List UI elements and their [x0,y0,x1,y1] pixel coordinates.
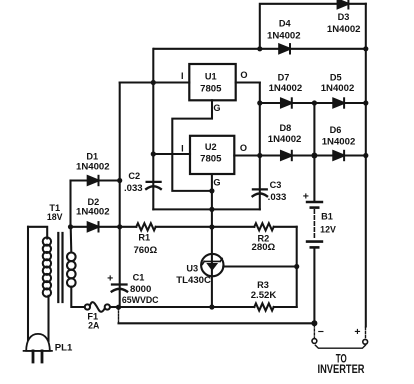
wire U2 ground rail down through U3 [211,174,213,307]
transformer T1 core [58,233,62,302]
svg-text:C2: C2 [128,171,140,181]
wire R2 right vertical [296,227,298,307]
resistor R3 [254,303,273,310]
svg-text:U3: U3 [186,264,198,274]
svg-text:12V: 12V [320,225,336,235]
svg-text:I: I [181,71,184,81]
wire rail A to rail B jog (dotted) [118,308,120,323]
svg-text:8000: 8000 [130,284,151,295]
op-amp U1 regulator box [189,64,235,100]
svg-text:C1: C1 [133,273,145,283]
node dot D5/right-rail [363,100,368,105]
svg-text:+: + [107,273,113,285]
svg-text:760Ω: 760Ω [133,245,157,256]
wire left rail (with C1 gap) [119,83,121,308]
wire fuse to rail junction [110,306,119,308]
svg-text:280Ω: 280Ω [252,242,276,253]
node dot secondary/D2 [68,224,73,229]
svg-text:D4: D4 [279,18,292,28]
wire U1 input [120,81,190,83]
svg-text:65WVDC: 65WVDC [122,295,159,305]
node dot U2 input feed [151,151,156,156]
wire input feed vertical (with C2 gap) [152,49,154,210]
svg-text:1N4002: 1N4002 [268,134,302,145]
svg-text:C3: C3 [270,180,282,190]
node dot ground jog [209,188,214,193]
svg-text:1N4002: 1N4002 [321,83,355,94]
svg-text:1N4002: 1N4002 [267,31,301,42]
svg-text:D6: D6 [330,125,342,135]
wire bottom rail A (with R3 gap) [119,306,297,308]
diode D7 [281,98,292,107]
diode D5 [333,98,344,107]
svg-text:.033: .033 [268,192,287,203]
svg-text:18V: 18V [47,212,63,222]
wire D2 / R1 / R2 line [71,226,297,228]
node dot ground line [209,207,214,212]
svg-text:TL430C: TL430C [176,275,211,286]
wire secondary bottom lead and fuse wire [71,287,85,307]
wire capacitor ground line [153,208,259,210]
wire secondary top lead [70,227,73,253]
wire plug hot lead to primary [28,227,47,239]
capacitor C3 [253,189,267,196]
wire rail B to minus terminal [119,322,315,324]
svg-text:INVERTER: INVERTER [318,362,365,376]
wire plug left vertical [27,227,29,341]
terminal minus [312,339,317,344]
svg-text:O: O [240,70,247,80]
svg-text:U2: U2 [205,142,217,152]
svg-text:PL1: PL1 [55,342,73,353]
svg-text:1N4002: 1N4002 [327,24,361,35]
fuse F1 [85,302,110,312]
svg-text:D8: D8 [280,123,292,133]
svg-text:1N4002: 1N4002 [76,207,110,218]
svg-text:G: G [213,103,220,113]
diode D8 [281,151,292,160]
resistor R2 [254,223,273,230]
capacitor C1 [112,285,127,292]
node dot D4/top-loop [257,46,262,51]
svg-text:U1: U1 [205,71,217,81]
wire U3 reference [223,265,296,267]
transformer T1 secondary winding [67,252,76,286]
svg-text:−: − [318,326,324,338]
bracket to inverter [315,345,365,348]
svg-text:+: + [354,326,360,338]
wire U1 output [236,81,260,83]
svg-text:D5: D5 [330,72,342,82]
svg-text:+: + [303,191,309,203]
node dot battery/rail B [311,320,317,326]
node dot D8/D6 mid [311,153,317,159]
svg-text:1N4002: 1N4002 [76,161,110,172]
node dot D6/right-rail [363,153,368,158]
wire battery dotted lead to - terminal [313,325,315,338]
svg-text:I: I [181,144,184,154]
node dot U3 anode rail A [209,304,214,309]
svg-text:B1: B1 [321,212,333,222]
wire right rail [365,4,367,327]
node dot U1 input feed [151,80,156,85]
wire right rail dotted lead to + terminal [365,328,367,339]
node dot D4/right-rail [363,46,368,51]
node dot D7 branch [257,100,262,105]
diode D6 [333,151,344,160]
svg-text:D7: D7 [278,72,290,82]
svg-text:D3: D3 [338,12,350,22]
plug PL1 [24,334,52,362]
svg-text:1N4002: 1N4002 [322,137,356,148]
wire U2 input [153,153,190,155]
node dot D2/left-rail [117,224,122,229]
diode D3 [338,0,349,8]
svg-text:D1: D1 [86,152,98,162]
wire battery vertical lower [313,249,315,323]
svg-text:2A: 2A [88,320,100,330]
wire primary bottom lead [47,296,49,341]
resistor R1 [136,223,155,230]
svg-text:7805: 7805 [200,83,222,94]
svg-text:G: G [213,178,220,188]
wire U1 ground jog [172,100,212,191]
battery B1 [307,202,322,247]
wire output vertical (with C3 gap) [259,83,261,210]
node dot fuse/rail A [116,305,121,310]
terminal plus [363,339,368,344]
svg-text:O: O [240,143,247,153]
transformer T1 primary winding [43,237,51,296]
transistor U3 shunt regulator [201,254,223,276]
svg-text:R1: R1 [138,233,150,243]
svg-text:D2: D2 [88,197,100,207]
wire D7/D5 branch [260,102,366,104]
diode D1 [88,176,99,185]
op-amp U2 regulator box [190,136,234,174]
wire D1 branch [71,179,120,181]
diode D2 [88,222,99,231]
svg-text:.033: .033 [124,183,143,194]
wire D8/D6 branch (U2 output) [234,154,365,156]
wire D4 branch [154,48,366,50]
wire battery vertical upper [313,103,315,200]
svg-text:R3: R3 [257,280,269,290]
node dot D8 branch [257,153,262,158]
capacitor C2 [146,182,161,189]
node dot U3 ref/R2R3 [294,264,299,269]
diode D4 [279,44,290,53]
node dot R1/R2 line [209,224,214,229]
node dot D7/D5 mid [312,100,317,105]
svg-text:7805: 7805 [200,153,222,164]
node dot D1/left-rail [117,178,122,183]
wire top loop (D3 branch) [260,4,366,49]
wire secondary-top vertical [69,181,71,227]
svg-text:2.52K: 2.52K [251,290,277,301]
svg-text:1N4002: 1N4002 [269,83,303,94]
